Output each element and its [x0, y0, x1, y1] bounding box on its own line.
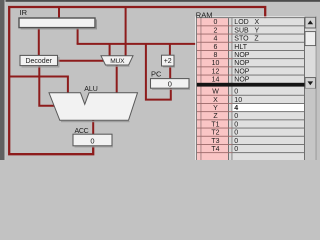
svg-text:0: 0: [234, 121, 238, 128]
scrollbar down button: [305, 78, 316, 89]
wire bus to MUX left input: [109, 44, 111, 56]
svg-text:IR: IR: [20, 8, 28, 17]
svg-text:14: 14: [212, 77, 220, 84]
svg-text:10: 10: [212, 60, 220, 67]
svg-text:0: 0: [234, 146, 238, 153]
svg-text:0: 0: [234, 130, 238, 137]
wire Decoder to MUX select: [58, 60, 105, 62]
wire bus to IR top: [58, 7, 60, 18]
svg-text:HLT: HLT: [234, 44, 247, 51]
svg-text:4: 4: [214, 36, 218, 43]
svg-text:0: 0: [234, 138, 238, 145]
register IR: [19, 18, 97, 29]
adder +2: [162, 55, 176, 67]
svg-text:T2: T2: [211, 130, 219, 137]
wire bus branch to ALU left operand: [10, 77, 68, 94]
svg-text:ALU: ALU: [84, 86, 98, 93]
svg-text:T1: T1: [211, 121, 219, 128]
svg-text:T4: T4: [211, 146, 219, 153]
area below scrollbar: [305, 88, 316, 160]
decoder U2: [20, 55, 59, 67]
wire horizontal address bus to RAM: [77, 43, 196, 45]
RAM thick separator: [197, 83, 305, 87]
svg-text:12: 12: [212, 68, 220, 75]
svg-text:0: 0: [168, 80, 172, 89]
wire PC feedback loop: [146, 44, 171, 100]
svg-text:W: W: [212, 89, 219, 96]
wire +2 to PC: [169, 66, 171, 79]
svg-text:T3: T3: [211, 138, 219, 145]
svg-text:LOD X: LOD X: [234, 19, 259, 26]
svg-text:10: 10: [234, 97, 242, 104]
wire ALU output to ACC riser: [92, 120, 94, 147]
svg-text:Decoder: Decoder: [25, 58, 52, 65]
svg-text:8: 8: [214, 52, 218, 59]
svg-text:SUB Y: SUB Y: [234, 27, 259, 34]
wire MUX output to ALU: [116, 65, 118, 94]
svg-text:0: 0: [90, 136, 94, 145]
wire main bus loop: ACC out, bottom, left, top, into RAM: [9, 7, 265, 154]
svg-text:STO Z: STO Z: [234, 36, 259, 43]
scrollbar thumb: [305, 32, 316, 46]
svg-text:6: 6: [214, 44, 218, 51]
mux: [101, 56, 133, 67]
svg-text:0: 0: [234, 89, 238, 96]
wire IR to Decoder: [38, 27, 40, 56]
svg-text:PC: PC: [151, 70, 162, 79]
svg-text:NOP: NOP: [234, 60, 250, 67]
wire bus to MUX right input: [125, 7, 127, 56]
scrollbar up button: [305, 17, 316, 28]
RAM row borders: [197, 25, 304, 153]
svg-text:Z: Z: [213, 113, 218, 120]
svg-text:NOP: NOP: [234, 68, 250, 75]
svg-text:4: 4: [234, 105, 238, 112]
RAM selected cell Y: [232, 103, 304, 111]
RAM table background: [195, 16, 316, 160]
scrollbar track: [305, 17, 316, 88]
svg-text:MUX: MUX: [110, 58, 125, 65]
wire IR output down: [77, 27, 79, 44]
svg-text:0: 0: [214, 19, 218, 26]
svg-text:NOP: NOP: [234, 52, 250, 59]
register ACC: [73, 134, 113, 147]
RAM address column texts: [211, 19, 219, 153]
svg-text:2: 2: [214, 27, 218, 34]
wire Decoder to ALU control: [38, 66, 55, 106]
wire bus to +2 box: [169, 44, 171, 56]
svg-text:NOP: NOP: [234, 77, 250, 84]
svg-text:X: X: [213, 97, 218, 104]
svg-text:RAM: RAM: [196, 11, 213, 20]
alu: [49, 93, 138, 122]
svg-text:+2: +2: [164, 58, 172, 65]
register PC: [151, 79, 191, 90]
RAM value column texts: [234, 19, 259, 153]
svg-text:Y: Y: [213, 105, 218, 112]
svg-text:0: 0: [234, 113, 238, 120]
